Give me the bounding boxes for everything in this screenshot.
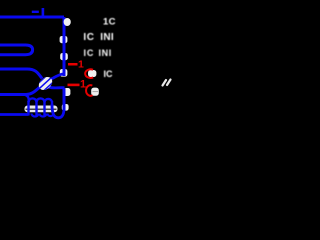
pad P4 xyxy=(60,69,68,77)
coil L1 bottom return wire to left edge xyxy=(0,113,29,116)
svg-text:1: 1 xyxy=(78,59,84,71)
wire vertical rail xyxy=(63,17,66,76)
coil L1 bottom arcs xyxy=(32,114,54,117)
wire W2 into transformer node xyxy=(0,85,42,94)
wire U-turn joining coil to vertical rail xyxy=(52,104,64,118)
svg-text:INI: INI xyxy=(100,32,114,43)
junction blob (white node with hatching) xyxy=(36,74,55,92)
red circle B xyxy=(86,85,93,96)
pin blob A (inside red circle A) xyxy=(88,70,96,77)
wire branch to pad P5 xyxy=(49,86,65,90)
pad P2 xyxy=(60,36,68,43)
pad P3 xyxy=(60,53,68,60)
wire top rail horizontal xyxy=(0,16,64,19)
svg-text:IC: IC xyxy=(104,69,114,79)
polarity slash mark 2 xyxy=(167,80,171,86)
pin blob B (inside red circle B) xyxy=(91,88,99,96)
junction hatching stripes xyxy=(36,74,55,91)
red annotation dash A xyxy=(68,63,78,66)
svg-text:1: 1 xyxy=(80,78,86,90)
pin blob B striation xyxy=(93,91,99,93)
coil L1 top arches xyxy=(29,98,53,102)
svg-text:INI: INI xyxy=(99,48,112,58)
wire W1 into transformer node xyxy=(0,69,42,79)
coil L1 legs xyxy=(29,101,53,116)
red annotation dash B xyxy=(68,84,80,87)
coil L1 entry fork from wire W2 xyxy=(25,95,29,102)
core bar (white ferrite core of coil L1) xyxy=(25,106,58,113)
polarity slash mark 1 xyxy=(163,80,167,86)
capacitor stub C1 plate xyxy=(42,8,45,16)
wire branch to pad P4 xyxy=(48,74,64,81)
wire vertical rail lower segment xyxy=(63,88,66,111)
red circle A xyxy=(85,69,93,78)
hairpin winding (open loop to left edge) xyxy=(0,45,33,55)
core seam xyxy=(26,108,57,110)
pad P5 xyxy=(63,88,71,96)
pad P6 xyxy=(62,104,69,111)
svg-text:1C: 1C xyxy=(103,16,116,27)
svg-text:IC: IC xyxy=(84,48,95,58)
svg-text:IC: IC xyxy=(83,32,94,43)
capacitor stub C1 dash xyxy=(32,11,39,13)
pad P1 (node on rail, top corner) xyxy=(64,18,71,26)
